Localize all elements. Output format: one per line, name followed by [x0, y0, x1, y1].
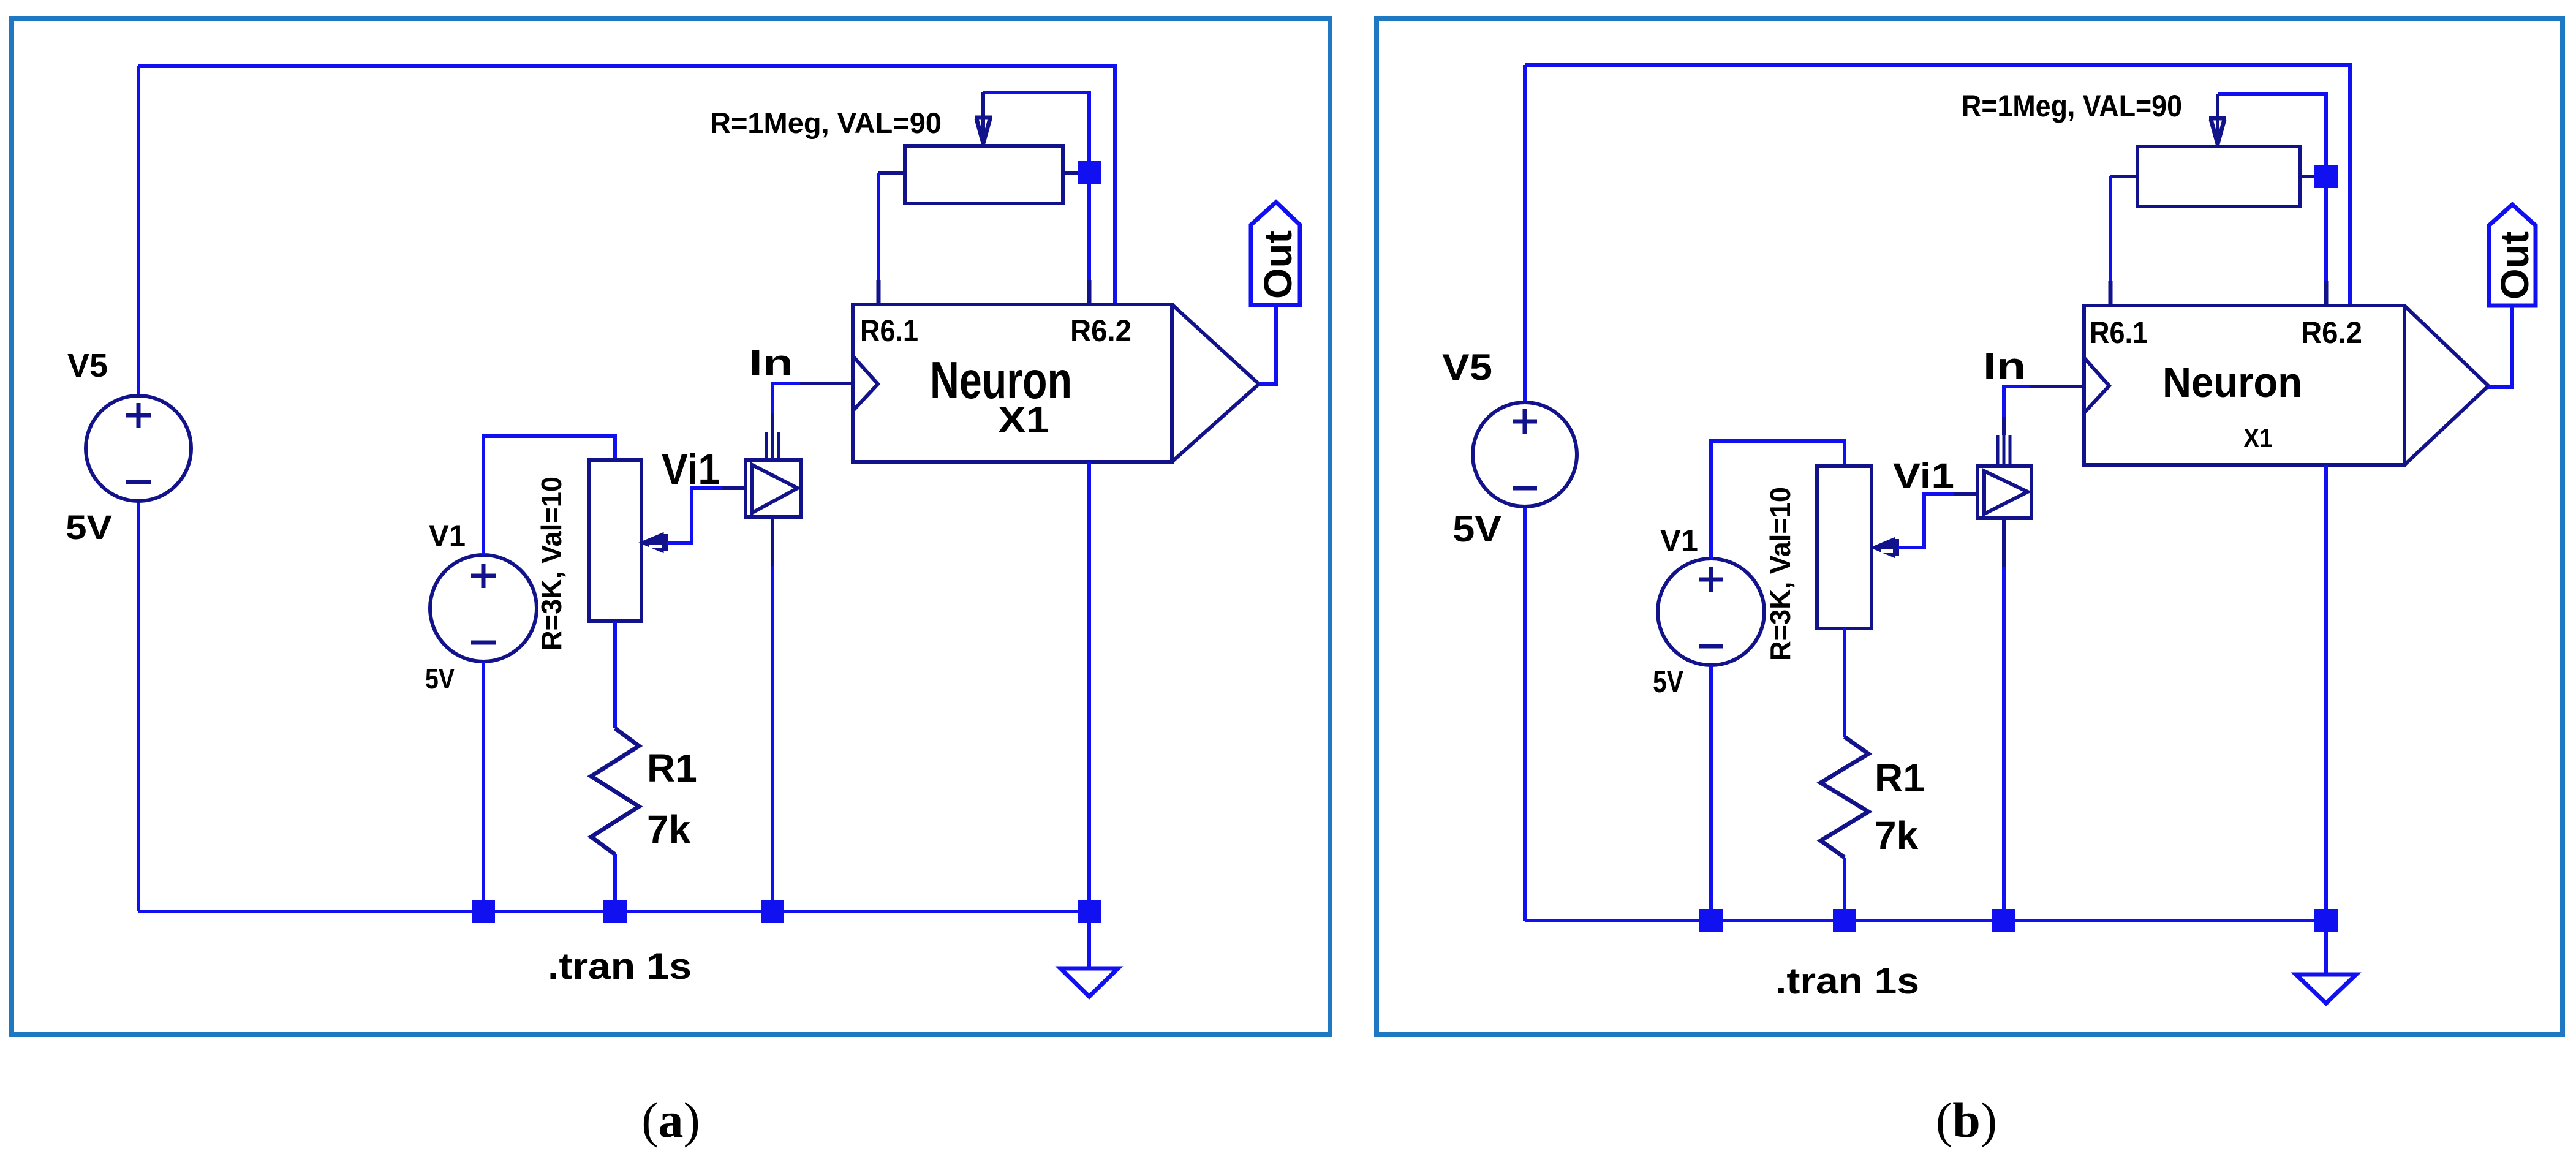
svg-text:R=3K, Val=10: R=3K, Val=10: [535, 477, 567, 650]
wire R6.1 pin stub b: [2109, 281, 2113, 306]
svg-text:Vi1: Vi1: [662, 445, 720, 493]
svg-text:Neuron: Neuron: [2162, 358, 2302, 406]
wire Out net b: [2488, 306, 2512, 387]
node R6.2 net a (junction): [1078, 161, 1101, 184]
pot wiper arrow (a): [641, 533, 663, 552]
wire top rail a: [138, 66, 1115, 304]
svg-text:X1: X1: [998, 399, 1049, 440]
wire R6.2 pin stub b: [2324, 281, 2329, 306]
ground (a): [1060, 968, 1118, 997]
wire wiper to Vi1 b: [1898, 494, 1954, 548]
wire In to Neuron b: [2030, 385, 2084, 388]
potentiometer R6 (R=1Meg, VAL=90) (b): [2137, 146, 2300, 206]
svg-text:V1: V1: [429, 519, 466, 553]
svg-text:V5: V5: [1442, 347, 1492, 388]
wire R1 to rail a: [613, 854, 617, 911]
resistor R1 (b): [1821, 737, 1868, 858]
wire rail to ground a: [1087, 911, 1091, 968]
node V1-gnd b (junction): [1699, 909, 1723, 932]
wire left rail lower b: [1523, 507, 1527, 921]
wire R6.2 pin wire a: [1087, 173, 1091, 304]
wire V1 plus to pot b: [1711, 441, 1845, 559]
wire Vi1 left pin a: [722, 486, 746, 490]
wire Vi1 pin stub a: [771, 413, 774, 432]
wire Vi1 to rail a: [771, 566, 774, 911]
svg-text:.tran 1s: .tran 1s: [1775, 960, 1919, 1001]
svg-text:R6.1: R6.1: [2090, 315, 2148, 350]
node Out (flag) (b): [2489, 205, 2536, 306]
wire left rail upper b: [1523, 65, 1527, 402]
svg-text:X1: X1: [2243, 423, 2273, 453]
node gnd net a (junction): [1078, 900, 1101, 923]
wire Neuron gnd pin a: [1087, 462, 1091, 911]
svg-text:R6.2: R6.2: [1070, 314, 1131, 348]
pot wiper arrow (b): [1872, 538, 1894, 557]
svg-text:In: In: [749, 343, 793, 383]
svg-text:5V: 5V: [1452, 508, 1501, 549]
wire bottom rail b: [1525, 919, 2326, 922]
potentiometer R6 (R=1Meg, VAL=90) (a): [905, 146, 1063, 203]
wire In to Neuron a: [800, 382, 853, 385]
wire Vi1 to rail b: [2002, 567, 2006, 921]
dependent source Vi1 (b): [1977, 466, 2031, 518]
svg-text:V1: V1: [1660, 524, 1698, 558]
potentiometer R (R=3K, Val=10) (b): [1817, 466, 1872, 628]
wire Vi1 left pin b: [1954, 492, 1977, 496]
wire left rail lower a: [137, 501, 140, 911]
wire bottom rail a: [138, 910, 1089, 913]
node R1-gnd b (junction): [1833, 909, 1856, 932]
voltage source V5 (a): [86, 396, 191, 501]
wire Vi1 bottom stub b: [2002, 518, 2006, 567]
voltage source V5 (b): [1473, 402, 1577, 507]
wire V1 plus to pot a: [483, 436, 615, 555]
svg-text:R6.1: R6.1: [860, 314, 918, 348]
node Vi1-gnd b (junction): [1992, 909, 2015, 932]
wire Vi1 pin stub b: [2002, 417, 2006, 435]
wire R6 wiper loop a: [983, 92, 1089, 173]
svg-text:R1: R1: [1875, 756, 1925, 800]
svg-text:In: In: [1983, 345, 2026, 388]
dependent source Vi1 (a): [746, 460, 801, 517]
wire R6.2 pin wire b: [2324, 176, 2328, 306]
wire rail to ground b: [2324, 921, 2328, 975]
voltage source V1 (a): [430, 555, 537, 662]
wire Vi1 bottom stub a: [771, 517, 774, 566]
svg-text:Out: Out: [1256, 230, 1300, 299]
wire R1 to rail b: [1843, 858, 1846, 921]
wire R6.1 pin wire b: [2109, 176, 2112, 306]
node R6.2 net b (junction): [2314, 165, 2338, 188]
svg-text:R6.2: R6.2: [2301, 315, 2362, 350]
node Vi1-gnd a (junction): [761, 900, 784, 923]
wire pot to R1 a: [613, 621, 617, 728]
node V1-gnd a (junction): [472, 900, 495, 923]
node R1-gnd a (junction): [603, 900, 627, 923]
node gnd net b (junction): [2314, 909, 2338, 932]
svg-text:5V: 5V: [66, 508, 112, 546]
wire R6 wiper tail b: [2216, 94, 2219, 145]
wire Neuron gnd pin b: [2324, 465, 2328, 921]
svg-text:5V: 5V: [1653, 665, 1684, 699]
svg-text:Out: Out: [2493, 231, 2537, 300]
svg-text:Vi1: Vi1: [1893, 456, 1954, 496]
wire In net b: [2004, 386, 2030, 417]
neuron input chevron (a): [853, 356, 878, 411]
svg-text:5V: 5V: [425, 663, 455, 695]
wire R6 left lead a: [878, 171, 905, 175]
wire wiper to Vi1 a: [667, 488, 722, 543]
svg-text:R1: R1: [647, 746, 697, 790]
wire R6.1 pin wire a: [877, 173, 880, 304]
svg-text:R=3K, Val=10: R=3K, Val=10: [1764, 487, 1796, 661]
wire V1 minus to rail a: [482, 662, 485, 911]
wire R6.2 pin stub a: [1087, 280, 1092, 304]
node Out (flag) (a): [1251, 202, 1300, 305]
wire R6.1 pin stub a: [877, 280, 881, 304]
wire R6 wiper tail a: [981, 92, 985, 144]
wire In net a: [772, 383, 800, 413]
potentiometer R (R=3K, Val=10) (a): [589, 460, 641, 621]
svg-text:R=1Meg, VAL=90: R=1Meg, VAL=90: [710, 107, 942, 139]
voltage source V1 (b): [1658, 559, 1764, 665]
wire Out net a: [1259, 305, 1276, 384]
wire pot to R1 b: [1843, 628, 1846, 737]
svg-text:.tran 1s: .tran 1s: [548, 946, 692, 987]
neuron input chevron (b): [2084, 358, 2109, 413]
svg-text:R=1Meg, VAL=90: R=1Meg, VAL=90: [1962, 89, 2182, 123]
svg-text:7k: 7k: [1875, 813, 1919, 858]
Vi1 top pin (b): [1998, 435, 2010, 466]
op-amp/neuron block U X1 (a): [853, 304, 1172, 462]
wire R6 left lead b: [2110, 175, 2137, 178]
wire R6 right lead a: [1063, 171, 1089, 175]
wire V1 minus to rail b: [1709, 665, 1713, 921]
svg-text:(a): (a): [641, 1092, 700, 1148]
ground (b): [2296, 975, 2356, 1003]
svg-text:V5: V5: [67, 347, 108, 384]
wire left rail upper a: [137, 66, 140, 396]
Vi1 top pin (a): [766, 432, 779, 460]
op-amp/neuron block U X1 (b): [2084, 306, 2404, 465]
svg-text:7k: 7k: [647, 807, 691, 851]
wire R6 wiper loop b: [2218, 94, 2326, 176]
wire top rail b: [1525, 65, 2350, 306]
svg-text:(b): (b): [1936, 1092, 1997, 1148]
resistor R1 (a): [591, 728, 639, 854]
wire R6 right lead b: [2300, 175, 2326, 178]
